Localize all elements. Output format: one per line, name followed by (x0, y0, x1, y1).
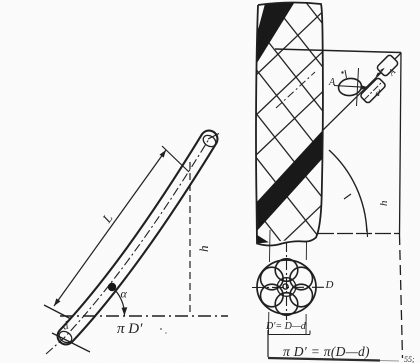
dot above ellipse (341, 71, 343, 73)
extension line right (wire center) (305, 241, 307, 260)
cylinder outline (256, 2, 323, 245)
extension tick at rod top for L (162, 146, 189, 172)
wire section ellipse A (337, 77, 362, 97)
dimension line L (54, 150, 166, 306)
ellipse vertical centerline (357, 68, 359, 106)
rod outline (bent capsule) (66, 139, 209, 336)
arrowhead L top (160, 150, 167, 158)
dark helix band middle (254, 131, 322, 232)
D' bracket end tick (309, 331, 311, 335)
centerline inside lower piece (364, 82, 382, 100)
extension tick at rod top toward h (208, 134, 219, 140)
rope outer circle (257, 260, 316, 314)
arrowhead alpha arc (122, 307, 128, 315)
baseline under arc (318, 233, 399, 235)
h dashed vertical (189, 162, 191, 316)
vertical centerline of rope section (286, 242, 288, 320)
wire circle bottom (275, 293, 298, 316)
D' bracket horizontal (268, 334, 310, 336)
wire rod piece upper (376, 54, 399, 77)
unwind arc (329, 150, 367, 232)
wire circle lower left (261, 284, 284, 307)
arrowhead L bottom (54, 298, 61, 306)
rod bottom end face (57, 329, 74, 345)
section trace dash-dot in cylinder (276, 72, 315, 108)
horizontal centerline of rope section (252, 286, 325, 288)
wire circle upper right (290, 267, 313, 290)
baseline pi D' dash-dot (60, 315, 228, 317)
wire circle top (275, 259, 298, 282)
rod top end face (201, 133, 218, 149)
paper noise overlay (0, 0, 1, 1)
d dimension arrows in gap (376, 68, 385, 77)
hatch lines inside cylinder (245, 0, 335, 316)
tick at arc end (366, 229, 369, 238)
rod centerline dash-dot (46, 139, 209, 354)
arrowhead to rod piece (362, 85, 369, 89)
D' bracket vertical (267, 330, 269, 357)
tick above ellipse (345, 70, 347, 78)
bottom rule (268, 358, 380, 361)
center wire mark (283, 284, 288, 289)
ellipse horizontal centerline (334, 86, 366, 88)
dark helix band top (255, 0, 296, 63)
center wire circle (277, 278, 296, 297)
angle arc alpha (112, 287, 125, 316)
d tick upper (44, 305, 71, 319)
speckles after pi D' (160, 328, 162, 330)
right border solid part (400, 53, 402, 236)
extension line left (wire center) (269, 230, 272, 262)
dark band corner remnant (254, 233, 273, 246)
short tick near arc (344, 194, 351, 199)
node dot on centerline (108, 283, 116, 291)
wire circle upper left (261, 267, 284, 290)
box top line (275, 49, 401, 53)
right border dashed part (400, 235, 403, 358)
d tick lower (52, 333, 90, 352)
wire circle lower right (290, 284, 313, 307)
bottom rule faint tail (380, 360, 399, 363)
wire rod piece lower (360, 77, 387, 104)
45 degree diagonal (322, 53, 401, 131)
